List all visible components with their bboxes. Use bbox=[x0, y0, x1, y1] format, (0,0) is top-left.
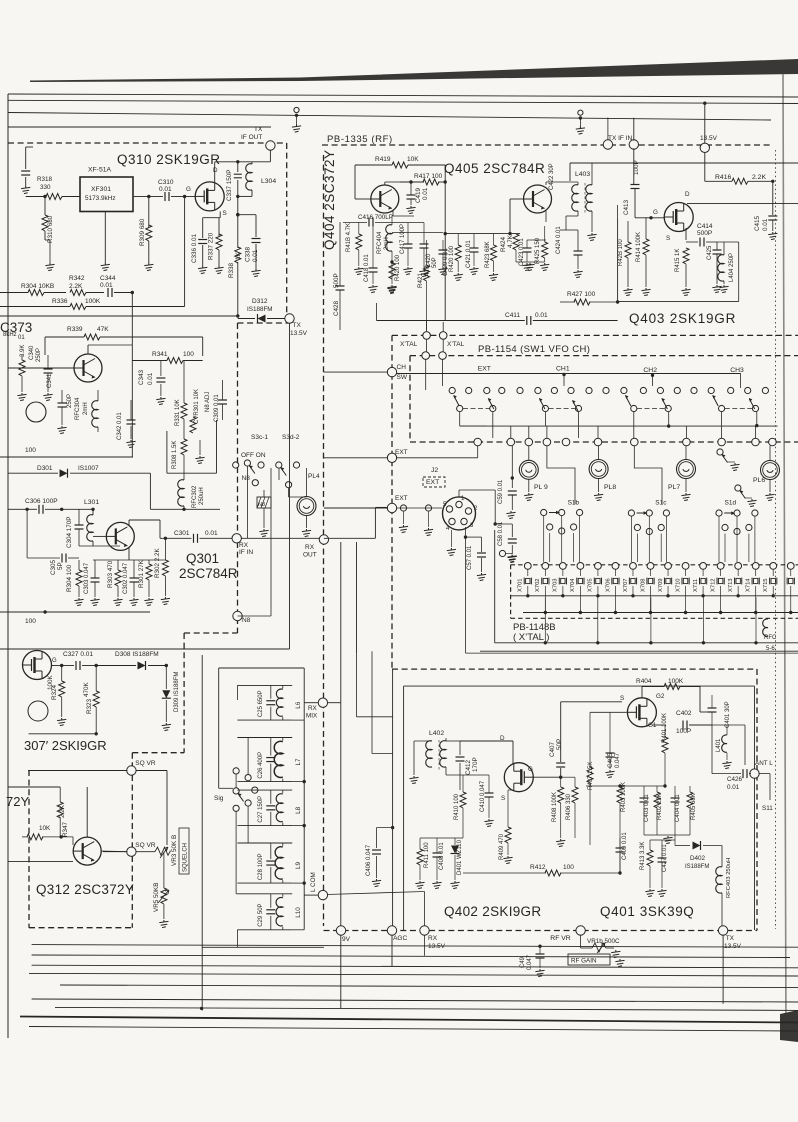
capacitor bbox=[21, 171, 30, 175]
crystal terminal 10 bbox=[682, 563, 689, 570]
node TX 13.5V bbox=[285, 314, 294, 323]
svg-text:13.5V: 13.5V bbox=[428, 943, 446, 950]
wire bbox=[569, 163, 571, 181]
wire top rail bbox=[219, 667, 305, 669]
transistor Q312 2SC372Y bbox=[73, 837, 101, 865]
wire bbox=[473, 252, 475, 266]
terminal circle bbox=[578, 110, 583, 115]
potentiometer VR3 50KB SQUELCH bbox=[155, 847, 171, 855]
wire bbox=[128, 547, 130, 560]
wire bbox=[306, 516, 308, 529]
wire bbox=[606, 947, 614, 949]
switch contact bbox=[691, 387, 697, 393]
svg-text:X701: X701 bbox=[518, 578, 524, 592]
svg-text:2SC784R: 2SC784R bbox=[179, 566, 238, 581]
ground bbox=[450, 881, 459, 889]
wire bbox=[61, 697, 63, 717]
capacitor C338 0.01 bbox=[252, 239, 261, 243]
wire bbox=[442, 322, 444, 332]
wire bbox=[633, 118, 635, 141]
wire bbox=[721, 893, 723, 926]
wire bbox=[756, 412, 758, 426]
svg-text:R413 3.3K: R413 3.3K bbox=[640, 842, 646, 870]
wire bbox=[94, 582, 96, 597]
wire y=301.4 bbox=[618, 300, 739, 302]
svg-text:R304 100: R304 100 bbox=[66, 564, 73, 592]
svg-text:0.01: 0.01 bbox=[159, 186, 172, 193]
wire bbox=[720, 586, 722, 613]
wire bbox=[528, 446, 530, 461]
capacitor C424 0.01 bbox=[574, 251, 583, 255]
wire bbox=[643, 802, 645, 835]
inductor RFC302 250uH bbox=[178, 480, 184, 506]
wire bbox=[661, 862, 663, 888]
wire bbox=[703, 845, 722, 847]
svg-text:C412: C412 bbox=[465, 759, 472, 775]
wire bbox=[442, 240, 444, 250]
wire bbox=[544, 412, 546, 426]
wire bbox=[723, 242, 725, 255]
wire bbox=[58, 665, 74, 667]
svg-text:OUT: OUT bbox=[303, 552, 317, 559]
switch contact bbox=[586, 387, 592, 393]
svg-text:AGC: AGC bbox=[393, 935, 407, 942]
wire bbox=[712, 724, 745, 726]
wire bbox=[326, 702, 341, 704]
svg-text:IS188FM: IS188FM bbox=[685, 864, 709, 870]
svg-text:R337 220: R337 220 bbox=[208, 232, 215, 260]
wire bbox=[736, 516, 738, 562]
wire bbox=[459, 412, 461, 427]
ground bbox=[126, 440, 135, 448]
crystal X702 bbox=[542, 578, 549, 585]
junction bbox=[236, 314, 239, 317]
ground bbox=[129, 598, 138, 606]
wire bbox=[414, 740, 432, 742]
junction bottom bbox=[200, 1007, 203, 1010]
wire bbox=[403, 511, 405, 524]
svg-text:R404: R404 bbox=[636, 678, 652, 685]
svg-text:EXT: EXT bbox=[478, 366, 491, 373]
junction bbox=[701, 594, 704, 597]
svg-text:R341: R341 bbox=[152, 351, 168, 358]
crystal X711 bbox=[700, 578, 707, 585]
junction bbox=[165, 664, 168, 667]
svg-text:Q405 2SC784R: Q405 2SC784R bbox=[444, 161, 545, 176]
connector pin 4 bbox=[449, 518, 455, 524]
wire bbox=[431, 741, 433, 742]
hatched NB box bbox=[257, 497, 271, 508]
svg-text:C402: C402 bbox=[676, 710, 692, 717]
wire bbox=[29, 733, 97, 735]
svg-text:C28 100P: C28 100P bbox=[258, 853, 264, 880]
wire bbox=[702, 586, 704, 596]
resistor R411 100 bbox=[417, 849, 423, 865]
wire bbox=[45, 239, 50, 241]
svg-text:R406 330: R406 330 bbox=[566, 793, 572, 820]
svg-text:C411: C411 bbox=[505, 312, 520, 319]
switch S1c contact bbox=[628, 510, 634, 516]
wire bbox=[183, 455, 185, 473]
svg-text:D: D bbox=[685, 191, 690, 198]
junction bbox=[508, 232, 511, 235]
wire bbox=[183, 360, 203, 362]
svg-text:C302 0.047: C302 0.047 bbox=[123, 562, 129, 594]
junction bbox=[649, 611, 652, 614]
resistor R308 1.5K bbox=[181, 439, 187, 455]
wire vertical x=340.8 (RX MIX out) bbox=[340, 542, 342, 1008]
wire vertical x=356.5 bbox=[356, 542, 358, 653]
svg-text:PB-1154 (SW1 VFO CH): PB-1154 (SW1 VFO CH) bbox=[478, 344, 590, 355]
crystal terminal 6 bbox=[612, 563, 619, 570]
resistor R303 470 bbox=[115, 570, 121, 586]
wire bbox=[87, 345, 89, 354]
svg-text:D401 WZ110: D401 WZ110 bbox=[457, 839, 463, 875]
wire bbox=[706, 241, 717, 243]
wire bbox=[632, 569, 634, 576]
junction bbox=[579, 611, 582, 614]
svg-text:RFC302: RFC302 bbox=[192, 485, 198, 508]
wire bbox=[528, 479, 530, 492]
inductor L403 secondary bbox=[586, 185, 592, 211]
wire bbox=[445, 738, 447, 741]
svg-text:Sig: Sig bbox=[214, 795, 224, 802]
switch contact lower bbox=[719, 405, 725, 411]
svg-text:R304 10KB: R304 10KB bbox=[21, 283, 54, 290]
junction bbox=[538, 945, 541, 948]
wire R339 bbox=[45, 336, 84, 338]
wire bbox=[570, 162, 798, 164]
svg-text:2.2K: 2.2K bbox=[752, 174, 766, 181]
wire bbox=[7, 94, 9, 1038]
svg-text:C421 0.01: C421 0.01 bbox=[466, 240, 472, 268]
wire bbox=[215, 161, 238, 163]
wire bbox=[396, 457, 478, 459]
wire right bbox=[166, 771, 168, 846]
resistor R419 10K bbox=[392, 162, 408, 168]
crystal X713 bbox=[735, 578, 742, 585]
wire bbox=[133, 582, 135, 597]
wire bbox=[222, 380, 224, 400]
switch lower contact bbox=[547, 524, 553, 530]
svg-text:J2: J2 bbox=[431, 467, 438, 474]
wire bbox=[473, 234, 475, 248]
wire bbox=[322, 144, 771, 146]
ground bbox=[214, 266, 223, 274]
resistor R341 100 bbox=[167, 358, 183, 364]
svg-text:ANT L: ANT L bbox=[755, 760, 773, 767]
wire bbox=[246, 466, 248, 538]
wire bbox=[413, 762, 415, 775]
wire bbox=[28, 770, 30, 928]
svg-text:R309 680: R309 680 bbox=[139, 218, 146, 246]
ground bbox=[657, 889, 666, 897]
svg-text:100: 100 bbox=[563, 864, 574, 871]
switch contact bbox=[449, 387, 455, 393]
wire bbox=[358, 250, 360, 266]
svg-text:R301 27K: R301 27K bbox=[138, 559, 145, 588]
wire bbox=[236, 685, 238, 700]
capacitor C58 0.01 bbox=[508, 539, 517, 543]
resistor R304 100 bbox=[76, 570, 82, 586]
wire bbox=[376, 856, 378, 878]
crystal terminal 13 bbox=[735, 563, 742, 570]
svg-text:SQ VR: SQ VR bbox=[135, 760, 156, 767]
wire bottom 7 bbox=[55, 1007, 798, 1010]
wire bbox=[507, 843, 509, 855]
wire bbox=[667, 569, 669, 576]
ground bbox=[17, 393, 26, 401]
wire bbox=[339, 222, 341, 286]
svg-text:Q401 3SK39Q: Q401 3SK39Q bbox=[600, 904, 694, 919]
junction CH2 bbox=[651, 374, 654, 377]
svg-text:C406 0.047: C406 0.047 bbox=[366, 844, 372, 876]
junction bbox=[303, 881, 306, 884]
wire bbox=[462, 808, 464, 838]
node RX MIX bbox=[318, 698, 327, 707]
wire bbox=[516, 261, 545, 263]
crystal terminal 2 bbox=[542, 563, 549, 570]
svg-text:TX: TX bbox=[293, 322, 302, 329]
wire bbox=[609, 712, 611, 753]
capacitor C59 0.01 bbox=[508, 491, 517, 495]
svg-text:R419: R419 bbox=[375, 156, 391, 163]
bus terminal bbox=[683, 438, 691, 446]
wire bbox=[292, 882, 304, 884]
svg-text:C410 0.047: C410 0.047 bbox=[480, 780, 486, 812]
wire bbox=[267, 318, 285, 320]
ground bbox=[524, 493, 533, 501]
wire bbox=[164, 851, 167, 853]
wire bbox=[577, 230, 579, 251]
ground bbox=[489, 273, 498, 281]
switch contact bbox=[621, 387, 627, 393]
wire bbox=[457, 261, 459, 272]
wire bbox=[8, 142, 287, 144]
resistor R412 100 bbox=[545, 870, 561, 876]
switch contact bbox=[535, 387, 541, 393]
junction bbox=[464, 535, 467, 538]
circle bbox=[26, 402, 46, 422]
junction bbox=[303, 824, 306, 827]
wire bbox=[237, 196, 239, 214]
capacitor C425 bbox=[713, 250, 722, 254]
resistor R420 100 bbox=[455, 245, 461, 261]
ground bbox=[573, 270, 582, 278]
resistor R413 3.3K bbox=[647, 850, 653, 866]
svg-text:C59 0.01: C59 0.01 bbox=[498, 479, 504, 504]
wire bbox=[136, 770, 168, 772]
svg-text:R338: R338 bbox=[228, 262, 235, 278]
ground bbox=[594, 493, 603, 501]
wire bbox=[685, 247, 687, 249]
junction on bus 3 bbox=[295, 114, 298, 117]
wire bbox=[132, 752, 184, 754]
junction bbox=[771, 180, 774, 183]
junction bbox=[719, 611, 722, 614]
capacitor C405 0.047 bbox=[606, 753, 615, 757]
wire bbox=[614, 569, 616, 576]
wire bbox=[565, 216, 567, 230]
wire bbox=[644, 834, 690, 836]
contact bbox=[245, 775, 251, 781]
wire D301 bbox=[8, 472, 58, 474]
wire bbox=[772, 586, 774, 596]
ground bbox=[747, 499, 756, 507]
wire bbox=[477, 446, 479, 458]
resistor R342 2.2K bbox=[70, 290, 86, 296]
svg-text:R425 150: R425 150 bbox=[535, 237, 541, 264]
connector pin 5 bbox=[446, 506, 452, 512]
wire bbox=[512, 741, 514, 764]
wire bbox=[643, 786, 645, 798]
svg-text:N8 ADJ: N8 ADJ bbox=[205, 392, 211, 412]
wire bbox=[282, 894, 284, 897]
resistor R318 bbox=[46, 194, 62, 200]
wire bottom 8 (heavy) bbox=[20, 1017, 798, 1023]
wire bbox=[255, 215, 257, 237]
wire bbox=[214, 162, 216, 182]
svg-text:XF-51A: XF-51A bbox=[88, 167, 112, 174]
wire bbox=[511, 564, 798, 566]
wire bbox=[656, 786, 658, 792]
svg-text:X712: X712 bbox=[710, 578, 716, 592]
wire bbox=[454, 838, 456, 845]
wire bbox=[28, 770, 127, 772]
svg-text:C305: C305 bbox=[50, 559, 57, 575]
wire bbox=[165, 666, 167, 690]
svg-text:0.01: 0.01 bbox=[100, 282, 113, 289]
bus terminal bbox=[769, 438, 777, 446]
resistor R417 100 bbox=[423, 179, 439, 185]
wire emitter row bbox=[8, 861, 73, 863]
wire 13.5V up bbox=[704, 103, 706, 143]
wire bbox=[102, 850, 128, 853]
svg-text:TX: TX bbox=[254, 126, 263, 133]
ground bbox=[503, 856, 512, 864]
wire bbox=[356, 653, 358, 717]
svg-text:TX IF IN: TX IF IN bbox=[608, 135, 633, 142]
wire R417 bbox=[400, 181, 424, 183]
wire bbox=[527, 569, 529, 576]
bus terminal bbox=[507, 438, 515, 446]
svg-text:R336: R336 bbox=[52, 298, 68, 305]
wire bbox=[95, 707, 97, 734]
wire bbox=[384, 182, 386, 185]
wire bbox=[755, 569, 757, 576]
switch S1c contact bbox=[646, 510, 652, 516]
ground bbox=[43, 393, 52, 401]
capacitor C408 0.01 bbox=[433, 853, 442, 857]
wire bbox=[560, 777, 562, 787]
wire bbox=[546, 426, 548, 438]
resistor R404 100K bbox=[664, 684, 680, 690]
wire bbox=[481, 537, 483, 552]
S1b arm arrow bbox=[549, 512, 557, 514]
wire bbox=[61, 390, 63, 403]
switch contact lower bbox=[631, 405, 637, 411]
wire bbox=[47, 355, 49, 369]
svg-text:100P: 100P bbox=[633, 160, 640, 175]
scan artifact: right page edge line bbox=[783, 74, 786, 1036]
wire bbox=[286, 143, 288, 313]
trimmer CVR301 bbox=[190, 417, 196, 433]
wire bbox=[159, 520, 161, 538]
wire bbox=[617, 205, 619, 218]
svg-text:L10: L10 bbox=[295, 907, 302, 918]
svg-text:R310 680: R310 680 bbox=[47, 215, 54, 243]
wire bbox=[578, 412, 580, 438]
wire RX IF IN to RX OUT bbox=[241, 537, 320, 539]
wire R419 bbox=[355, 164, 392, 166]
switch contact bbox=[466, 387, 472, 393]
FET Q402 2SK19GR bbox=[504, 763, 533, 792]
svg-text:5P: 5P bbox=[57, 562, 64, 570]
ground bbox=[540, 263, 549, 271]
wire bbox=[702, 569, 704, 576]
resistor R302 2.2K bbox=[162, 560, 168, 576]
ground bbox=[162, 723, 171, 731]
wire bbox=[526, 240, 528, 248]
wire bbox=[410, 355, 798, 357]
svg-text:Q312 2SC372Y: Q312 2SC372Y bbox=[36, 882, 134, 897]
connector pin 3 bbox=[461, 518, 467, 524]
wire emitter bbox=[392, 211, 394, 216]
capacitor C27 150P bbox=[266, 806, 275, 810]
wire bbox=[237, 684, 292, 686]
svg-text:L304: L304 bbox=[261, 178, 276, 185]
wire bbox=[597, 426, 599, 438]
svg-text:S1c: S1c bbox=[655, 500, 667, 507]
junction bbox=[666, 594, 669, 597]
switch S1b contact bbox=[559, 509, 565, 515]
wire bbox=[560, 722, 562, 762]
svg-text:250P: 250P bbox=[36, 348, 42, 362]
wire bbox=[664, 725, 666, 737]
switch contact lower bbox=[665, 405, 671, 411]
svg-text:50P: 50P bbox=[556, 739, 563, 750]
crystal X710 bbox=[682, 578, 689, 585]
svg-text:R302 2.2K: R302 2.2K bbox=[154, 547, 161, 578]
svg-text:R323: R323 bbox=[86, 698, 93, 714]
wire bbox=[436, 857, 438, 880]
capacitor C420 50P bbox=[420, 244, 429, 248]
wire bbox=[148, 241, 150, 263]
wire bbox=[410, 182, 412, 195]
wire bbox=[27, 557, 60, 559]
wire bbox=[702, 597, 704, 642]
svg-text:G2: G2 bbox=[656, 693, 665, 700]
wire bbox=[78, 509, 80, 525]
wire bbox=[674, 786, 676, 798]
svg-text:C304 170P: C304 170P bbox=[66, 516, 73, 548]
crystal terminal 15 bbox=[770, 563, 777, 570]
switch contact bbox=[728, 387, 734, 393]
svg-text:R423 68K: R423 68K bbox=[485, 241, 491, 268]
bus terminal bbox=[525, 438, 533, 446]
wire bbox=[426, 339, 428, 352]
switch arm bbox=[454, 396, 460, 407]
ground bbox=[354, 267, 363, 275]
wire bbox=[238, 318, 255, 320]
wire bbox=[61, 666, 63, 682]
svg-text:0.01: 0.01 bbox=[762, 218, 769, 231]
node TX IF IN bbox=[603, 140, 612, 149]
wire top Q311 bbox=[8, 786, 60, 788]
wire bbox=[589, 783, 591, 845]
svg-text:X708: X708 bbox=[640, 578, 646, 592]
wire bbox=[183, 506, 185, 509]
